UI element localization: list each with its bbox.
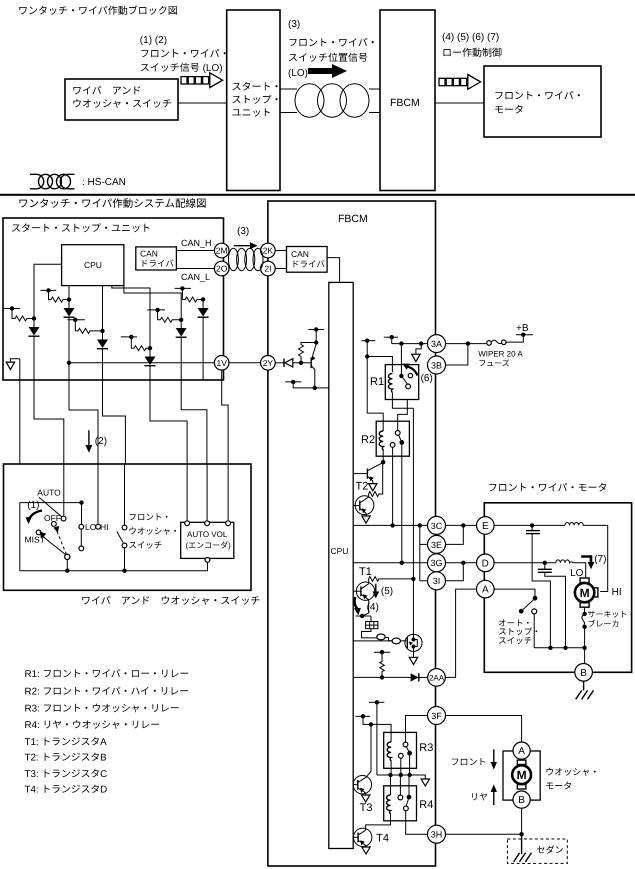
junction pivot rail xyxy=(65,569,69,573)
svg-text:CPU: CPU xyxy=(331,546,349,556)
lever MIST to pivot xyxy=(40,532,67,556)
wire R4 coil to T4 xyxy=(366,821,391,830)
auto stop switch xyxy=(519,596,538,648)
junction offpage arrow xyxy=(419,341,423,345)
wire CPU to C5 column xyxy=(124,286,181,320)
motor common rail xyxy=(534,647,584,649)
wire 3C row xyxy=(353,524,427,526)
svg-text:モータ: モータ xyxy=(545,781,572,791)
contact OFF xyxy=(52,522,57,527)
svg-text:M: M xyxy=(517,768,527,782)
svg-text:モータ: モータ xyxy=(494,104,524,116)
wire E row xyxy=(494,524,532,526)
wire down to R2 coil xyxy=(367,357,383,432)
wire w1 xyxy=(19,359,21,464)
R4 coil xyxy=(386,795,390,814)
contact MIST xyxy=(36,530,41,535)
svg-text:T2: T2 xyxy=(356,481,369,493)
diode C3 xyxy=(97,331,108,380)
svg-text:T2: トランジスタB: T2: トランジスタB xyxy=(25,753,108,764)
wire CPU to diode xyxy=(353,676,410,678)
node 1V xyxy=(214,356,229,371)
riser 3E/3I xyxy=(419,525,421,580)
junction D cap xyxy=(543,561,547,565)
svg-text:R2: R2 xyxy=(361,434,375,446)
junction C1 xyxy=(32,316,36,320)
svg-text:AUTO: AUTO xyxy=(37,488,61,498)
block: front wiper motor xyxy=(484,66,601,137)
junction LO column xyxy=(79,500,83,504)
T3 ground arrow xyxy=(362,795,370,802)
node D xyxy=(477,554,495,572)
svg-text:3A: 3A xyxy=(431,339,442,349)
junction 2AA row xyxy=(380,675,384,679)
junction C2 xyxy=(67,297,71,301)
node E xyxy=(477,517,495,535)
node 2I xyxy=(261,261,276,276)
CAN driver (unit) xyxy=(136,247,177,270)
resistor C5 xyxy=(158,310,182,322)
svg-text:T3: T3 xyxy=(360,802,373,814)
node 2O xyxy=(214,261,229,276)
svg-text:A: A xyxy=(482,585,489,596)
contact AUTO VOL bottom xyxy=(205,558,210,563)
svg-text:WIPER 20 A: WIPER 20 A xyxy=(478,350,523,359)
svg-text:ユニット: ユニット xyxy=(232,108,272,119)
fuse WIPER 20A xyxy=(487,336,524,346)
diode to 2AA xyxy=(411,673,428,681)
wire to LO contact xyxy=(81,503,83,525)
ground below B xyxy=(576,681,594,699)
buffer oval 2 xyxy=(392,638,400,644)
washer switch lever xyxy=(117,532,123,543)
svg-text:(4): (4) xyxy=(367,602,379,613)
wire A row to auto stop switch xyxy=(494,589,535,596)
twisted pair 2M/2O to 2K/2I xyxy=(228,248,263,270)
svg-text:3C: 3C xyxy=(431,521,443,531)
supply stub at 2Y transistor xyxy=(308,327,324,342)
svg-text:(1): (1) xyxy=(27,500,39,511)
svg-text:FBCM: FBCM xyxy=(390,97,420,109)
svg-text:1V: 1V xyxy=(216,358,227,368)
wire pivot to bottom rail xyxy=(66,560,68,571)
wire R3 switch to 3F xyxy=(406,716,429,743)
R4 bottom contact xyxy=(404,806,409,811)
svg-text:3B: 3B xyxy=(431,360,442,370)
wire 3F to washer A xyxy=(446,716,522,743)
wire 3A to fuse xyxy=(446,343,487,345)
CAN driver (FBCM) xyxy=(287,247,328,273)
transistor U1 (circle) xyxy=(353,494,374,516)
wire 1V to 2Y xyxy=(229,362,261,364)
svg-text:スイッチ: スイッチ xyxy=(128,540,162,550)
svg-text:フューズ: フューズ xyxy=(478,359,510,368)
wire rail to B xyxy=(584,648,586,664)
svg-text:ウオッシャ・: ウオッシャ・ xyxy=(128,526,179,536)
svg-text:(3): (3) xyxy=(237,226,249,237)
svg-text:ウオッシャ・スイッチ: ウオッシャ・スイッチ xyxy=(72,98,172,110)
offpage arrow (6) feed xyxy=(412,344,422,362)
wire w2 to AUTO contact xyxy=(63,464,65,516)
separator line xyxy=(0,194,635,196)
wire FBCM to motor xyxy=(435,102,484,104)
front wiper motor box xyxy=(484,503,631,673)
svg-text:スタート・: スタート・ xyxy=(232,81,282,93)
node 2M xyxy=(214,243,229,258)
svg-text:(5): (5) xyxy=(381,586,393,597)
wire CPU to gate xyxy=(353,640,406,642)
junction 3B riser xyxy=(466,341,470,345)
resistor 2AA xyxy=(380,652,385,677)
buffer oval 1 xyxy=(377,634,385,640)
svg-text:3H: 3H xyxy=(431,830,443,840)
capacitor CD xyxy=(538,563,566,648)
svg-text:ロー作動制御: ロー作動制御 xyxy=(442,47,502,59)
junction 3E riser right xyxy=(461,523,465,527)
supply stub R1-b xyxy=(384,335,398,344)
pull-up stub C4 xyxy=(121,335,137,339)
pull-up stub C1 xyxy=(3,306,20,310)
wire R3 coil bottom xyxy=(390,768,392,775)
wire washer switch to rail xyxy=(124,464,126,571)
junction C3 xyxy=(100,329,104,333)
rail under R3 xyxy=(377,775,425,779)
wire w5 xyxy=(150,380,187,464)
curved arrow (1) xyxy=(29,511,43,522)
svg-text:ドライバ: ドライバ xyxy=(291,259,325,269)
wire 2I to driver xyxy=(275,268,286,270)
wires into AUTO VOL xyxy=(187,464,228,521)
svg-text:FBCM: FBCM xyxy=(338,213,368,225)
svg-text:M: M xyxy=(580,586,590,600)
R1 coil xyxy=(388,374,392,393)
wire 2K to driver xyxy=(275,250,286,252)
svg-text:CAN: CAN xyxy=(140,249,158,259)
resistor C2 xyxy=(49,290,70,302)
U1 emitter ground arrow xyxy=(362,516,370,523)
pivot contact xyxy=(65,554,70,559)
washer motor M xyxy=(512,760,531,789)
resistor T2-U1 xyxy=(369,462,383,496)
sedan dashed box xyxy=(507,839,567,863)
wire CPU-left to C1 xyxy=(34,264,62,318)
wire w4 xyxy=(103,380,126,464)
junction 3I riser right xyxy=(461,561,465,565)
svg-text:B: B xyxy=(518,795,525,806)
washer switch bottom contact xyxy=(122,543,127,548)
wire 3E right riser xyxy=(446,525,464,544)
wire to R3 coil top xyxy=(363,716,391,742)
wire w3 to HI contact xyxy=(97,464,99,524)
ground arrow (unit) xyxy=(6,359,20,370)
junction R2 armature at 3G row xyxy=(400,561,404,565)
MOSFET ground arrow xyxy=(409,651,417,664)
pull-up stub C6 xyxy=(175,286,191,290)
wire LO to lower contact xyxy=(80,529,82,546)
ground arrow under R3 rail xyxy=(421,779,429,786)
circuit breaker xyxy=(582,612,587,648)
T2 emitter ground arrow xyxy=(369,484,377,491)
wire R3 fixed to rail xyxy=(400,758,402,775)
CPU (unit) xyxy=(62,245,124,286)
wire CAN_H driver to 2M xyxy=(176,250,214,252)
wire CPU bottom to C4 column xyxy=(112,286,150,349)
R3 fixed contact xyxy=(398,753,403,758)
R4 lever xyxy=(406,799,408,806)
junction washer rail xyxy=(122,569,126,573)
twisted pair unit to FBCM xyxy=(280,84,380,117)
wire R4 moving up xyxy=(408,775,410,795)
wire w1 drop to rail xyxy=(19,503,21,571)
supply stub 2AA xyxy=(374,650,390,654)
riser T3 collector xyxy=(366,724,371,777)
svg-text:フロント・: フロント・ xyxy=(128,512,171,522)
wire w7 from 1V xyxy=(222,370,228,464)
arrow (5) xyxy=(372,584,393,599)
wire switch to unit xyxy=(178,102,227,104)
svg-text:スイッチ信号 (LO): スイッチ信号 (LO) xyxy=(140,62,223,74)
transistor T4 (circle) xyxy=(353,828,372,847)
wire 3I left xyxy=(420,580,428,582)
junction T2 collector xyxy=(381,460,385,464)
svg-text:フロント・ワイパ・: フロント・ワイパ・ xyxy=(288,37,378,49)
svg-text:LO: LO xyxy=(85,522,97,532)
svg-text:+B: +B xyxy=(516,323,529,334)
junction rail D-cap xyxy=(563,646,567,650)
R4 fixed contact xyxy=(398,795,403,800)
node 3B xyxy=(428,356,446,374)
resistor C1 xyxy=(12,309,34,322)
svg-text:ドライバ: ドライバ xyxy=(140,259,174,269)
contact below LO xyxy=(79,546,84,551)
svg-text:CAN: CAN xyxy=(291,249,309,259)
wire R1 coil bottom to drain column xyxy=(392,400,413,409)
node B xyxy=(575,664,593,682)
svg-text:スイッチ位置信号: スイッチ位置信号 xyxy=(288,52,368,64)
svg-text:3I: 3I xyxy=(433,576,441,586)
svg-text:(2): (2) xyxy=(95,436,107,447)
contact LO xyxy=(79,524,84,529)
junction sedan ground xyxy=(519,832,523,836)
R3 moving dot xyxy=(407,751,412,756)
drain column xyxy=(412,408,414,634)
junction C2/1V row xyxy=(67,361,71,365)
relay R4 xyxy=(384,786,417,821)
wire buffer1 to buffer2 xyxy=(385,638,392,641)
wire D row xyxy=(494,562,556,564)
block: wiper and washer switch xyxy=(65,79,178,120)
bottom rail of switch xyxy=(20,562,208,570)
transistor T3 (circle) xyxy=(353,776,371,796)
svg-text:2AA: 2AA xyxy=(429,673,445,682)
svg-text:R3: フロント・ウオッシャ・リレー: R3: フロント・ウオッシャ・リレー xyxy=(25,704,180,715)
contact HI xyxy=(96,524,101,529)
svg-text:(エンコーダ): (エンコーダ) xyxy=(186,541,232,550)
svg-text:2M: 2M xyxy=(216,246,228,256)
bent arrow (7) xyxy=(581,557,591,564)
R2 lever xyxy=(399,435,402,442)
inductor LD xyxy=(556,560,586,578)
R1 fixed contact xyxy=(408,373,412,377)
R4 coil feed xyxy=(390,775,392,795)
wire A to 2AA xyxy=(445,589,476,677)
node 3H xyxy=(428,825,446,843)
R3 top contact xyxy=(403,742,408,747)
transistor T1 (circle) xyxy=(353,582,374,616)
stub bar at (4) xyxy=(355,614,370,618)
wire washer B to 3H row xyxy=(521,808,523,834)
svg-text:3G: 3G xyxy=(430,558,442,568)
wire 3G row xyxy=(353,562,427,564)
R2 top contact xyxy=(395,431,400,436)
wire CPU bottom to C3 column xyxy=(102,286,104,331)
svg-text:2K: 2K xyxy=(263,246,274,256)
contact AUTO VOL 3 xyxy=(226,521,231,526)
wire w2 xyxy=(34,380,64,464)
washer node B xyxy=(513,791,530,808)
svg-text:T1: トランジスタA: T1: トランジスタA xyxy=(25,737,108,748)
wire motor to breaker xyxy=(584,607,586,614)
supply stub R3-b xyxy=(355,714,370,718)
svg-text:サーキット・: サーキット・ xyxy=(588,610,635,619)
node 2AA xyxy=(428,669,446,687)
svg-text:リヤ: リヤ xyxy=(470,792,488,802)
wire R4 bottom to 3H xyxy=(406,811,428,834)
junction 3E riser at 3C row xyxy=(418,523,422,527)
diode C6 xyxy=(198,300,209,381)
svg-text:スイッチ: スイッチ xyxy=(498,635,532,645)
node 3C xyxy=(428,516,446,534)
node A xyxy=(477,580,495,598)
svg-text:CAN_L: CAN_L xyxy=(181,272,210,282)
R3 lever xyxy=(406,747,409,753)
R3 coil xyxy=(387,742,391,761)
junction rail b xyxy=(407,773,411,777)
R2 moving dot xyxy=(399,440,404,445)
svg-text:R4: リヤ・ウオッシャ・リレー: R4: リヤ・ウオッシャ・リレー xyxy=(25,720,161,731)
svg-text:フロント・ワイパ・: フロント・ワイパ・ xyxy=(494,90,584,102)
curved arrow (4) xyxy=(354,597,357,610)
svg-text:: HS-CAN: : HS-CAN xyxy=(82,177,126,188)
svg-text:B: B xyxy=(580,668,587,679)
junction C6 xyxy=(201,297,205,301)
wiper and washer switch box xyxy=(4,464,252,590)
CPU (FBCM) xyxy=(329,282,353,848)
wire R2 fixed down to 3C row xyxy=(392,447,394,525)
junction C4 xyxy=(148,346,152,350)
start stop unit box xyxy=(3,218,224,380)
pull-up stub C5 xyxy=(147,308,165,312)
svg-text:ワンタッチ・ワイパ作動ブロック図: ワンタッチ・ワイパ作動ブロック図 xyxy=(18,5,178,17)
capacitor CE xyxy=(526,525,551,647)
svg-text:AUTO VOL: AUTO VOL xyxy=(187,530,228,539)
motor M (front wiper) xyxy=(575,578,598,607)
R1 moving contact xyxy=(406,384,411,389)
wire 3G to D xyxy=(446,562,477,564)
diode C2 xyxy=(64,300,75,380)
wire CAN driver to CPU xyxy=(327,258,340,283)
svg-text:フロント・ワイパ・: フロント・ワイパ・ xyxy=(140,48,230,60)
wire to R1 coil top xyxy=(367,357,392,373)
R4 moving dot xyxy=(407,795,412,800)
block: FBCM xyxy=(380,10,435,191)
node 3E xyxy=(428,535,446,553)
junction rail E-cap xyxy=(548,646,552,650)
wire CPU bottom to C2 column xyxy=(68,286,70,300)
AUTO VOL encoder box xyxy=(181,522,234,558)
junction collector node xyxy=(314,340,318,344)
MOSFET Q5 (circle) xyxy=(405,634,422,651)
svg-text:2I: 2I xyxy=(264,264,271,274)
svg-text:フロント・ワイパ・モータ: フロント・ワイパ・モータ xyxy=(488,482,608,494)
T4 ground arrow xyxy=(362,847,370,854)
junction emitter wire xyxy=(313,386,317,390)
svg-text:CAN_H: CAN_H xyxy=(181,238,212,248)
wire 1V row xyxy=(69,362,214,364)
junction R4 coil feed xyxy=(388,773,392,777)
block: start stop unit xyxy=(227,10,280,191)
dashed lever OFF to pivot xyxy=(53,526,66,555)
wire 3H row xyxy=(446,833,522,835)
junction E cap xyxy=(530,523,534,527)
diode C4 xyxy=(145,348,156,380)
diode C5 xyxy=(176,320,187,380)
resistor C3 xyxy=(75,320,102,334)
diode at 2Y xyxy=(275,359,301,367)
washer switch top contact xyxy=(122,525,127,530)
svg-text:(3): (3) xyxy=(288,19,300,30)
solid black arrow xyxy=(308,64,347,78)
transistor T2 xyxy=(353,462,383,483)
contact AUTO VOL 2 xyxy=(205,521,210,526)
wire R2 armature down to 3G row xyxy=(401,442,403,562)
svg-text:フロント: フロント xyxy=(451,757,487,767)
junction T1 to drain column xyxy=(411,577,415,581)
svg-text:A: A xyxy=(518,746,525,757)
svg-text:E: E xyxy=(482,521,489,532)
supply stub R1-a xyxy=(361,339,375,357)
resistor T1 xyxy=(369,577,414,584)
svg-text:ストップ・: ストップ・ xyxy=(232,94,282,106)
junction C5 xyxy=(179,318,183,322)
svg-text:2O: 2O xyxy=(216,264,228,274)
svg-text:R3: R3 xyxy=(419,742,433,754)
wire 3A row xyxy=(392,343,428,345)
R2 fixed contact xyxy=(390,443,395,448)
svg-text:ウオッシャ・: ウオッシャ・ xyxy=(545,767,599,777)
svg-text:3F: 3F xyxy=(431,711,442,721)
arrow (2) xyxy=(85,430,107,453)
svg-text:(4) (5) (6) (7): (4) (5) (6) (7) xyxy=(442,32,499,43)
R1 lever xyxy=(401,376,407,384)
svg-text:スタート・ストップ・ユニット: スタート・ストップ・ユニット xyxy=(11,223,151,235)
junction rail a xyxy=(399,773,403,777)
R2 coil xyxy=(379,431,383,450)
svg-text:CPU: CPU xyxy=(84,260,102,270)
svg-text:T4: T4 xyxy=(376,833,389,845)
node 3F xyxy=(428,707,446,725)
junction 2Y base node xyxy=(299,361,303,365)
svg-text:HI: HI xyxy=(612,587,622,598)
svg-text:R2: フロント・ワイパ・ハイ・リレー: R2: フロント・ワイパ・ハイ・リレー xyxy=(25,687,190,698)
svg-text:ワイパ アンド ウオッシャ・スイッチ: ワイパ アンド ウオッシャ・スイッチ xyxy=(81,595,260,607)
dashed block arrow 1 xyxy=(181,73,223,88)
dashed block arrow 2 xyxy=(439,75,481,90)
FBCM box xyxy=(268,201,436,866)
junction R2 fixed at 3C row xyxy=(390,523,394,527)
pull-up stub C2 xyxy=(40,288,56,292)
svg-text:R4: R4 xyxy=(419,799,433,811)
